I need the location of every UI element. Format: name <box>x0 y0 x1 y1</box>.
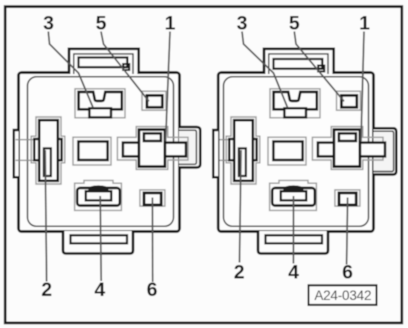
svg-text:1: 1 <box>359 13 370 35</box>
terminal 2 tall slot (right) <box>234 120 253 181</box>
svg-text:4: 4 <box>94 279 105 301</box>
svg-text:4: 4 <box>288 262 299 284</box>
terminal 1 vertical slot (right) <box>334 130 360 167</box>
terminal 5 slot (left) <box>147 95 162 107</box>
center slot gray outline (right) <box>268 137 306 165</box>
svg-text:1: 1 <box>165 13 176 35</box>
terminal 3 slot gray outline (left) <box>75 89 125 118</box>
terminal 1 bar slot (right) <box>318 143 385 157</box>
terminal 2 inner slot (left) <box>44 148 51 176</box>
right tab inner outline <box>179 130 196 164</box>
terminal 4 slot (right) <box>272 188 315 206</box>
part number box <box>309 285 377 305</box>
terminal 2 cross slot (right) <box>229 139 256 160</box>
top tab inner outline <box>74 54 133 74</box>
top tab slot step (right) <box>318 66 324 72</box>
svg-text:6: 6 <box>342 262 353 284</box>
terminal 5 slot gray outline (right) <box>337 91 361 110</box>
terminal 1 key slot (left) <box>144 133 161 141</box>
inner body outline (right) <box>224 77 369 227</box>
terminal 1 gray outline (right) <box>312 127 383 170</box>
terminal 3 slot (left) <box>79 92 122 109</box>
terminal 1 key slot (right) <box>339 133 356 141</box>
inner body outline (left) <box>28 77 174 227</box>
terminal 1 gray outline (left) <box>117 127 188 170</box>
center slot gray outline (left) <box>73 137 111 165</box>
svg-text:A24-0342: A24-0342 <box>314 288 371 303</box>
callout line 2 (right) <box>240 150 242 263</box>
terminal 4 key dome (left) <box>87 185 109 191</box>
terminal 6 slot (left) <box>144 193 161 205</box>
terminal 1 vertical slot (left) <box>139 130 165 167</box>
terminal 4 gray outline (left) <box>75 180 122 210</box>
callout line 3 (right) <box>242 32 288 108</box>
svg-text:5: 5 <box>96 13 107 35</box>
terminal 6 slot gray outline (left) <box>140 190 165 206</box>
connector body (right) <box>218 73 373 232</box>
terminal 3 slot (right) <box>274 92 317 109</box>
svg-text:2: 2 <box>234 262 245 284</box>
terminal 4 slot (left) <box>77 188 120 206</box>
top tab slot step <box>123 64 129 70</box>
svg-text:5: 5 <box>289 13 300 35</box>
terminal 2 gray outline (left) <box>31 117 65 184</box>
terminal 6 slot gray outline (right) <box>335 190 360 206</box>
svg-text:3: 3 <box>43 13 54 35</box>
svg-text:3: 3 <box>237 13 248 35</box>
terminal 4 inner slot (right) <box>281 191 306 200</box>
right tab (right connector) <box>374 128 397 174</box>
svg-text:2: 2 <box>41 279 52 301</box>
bottom tab (left connector) <box>63 231 133 254</box>
terminal 3 lower slot (right) <box>284 108 306 117</box>
terminal 2 cross slot (left) <box>34 139 61 160</box>
callout line 5 (left) <box>101 32 149 102</box>
right tab inner outline (right) <box>374 131 394 171</box>
callout line 3 (left) <box>48 32 93 108</box>
right tab (left connector) <box>179 127 200 168</box>
top tab slot <box>79 58 128 68</box>
terminal 2 gray stubs to left tab <box>16 140 35 161</box>
callout line 4 (right) <box>292 196 294 264</box>
terminal 1 bar slot (left) <box>123 143 186 157</box>
callout line 2 (left) <box>45 150 46 282</box>
terminal 2 gray stubs to left tab (right) <box>220 140 230 161</box>
bottom tab (right connector) <box>258 231 328 254</box>
left tab (right connector) <box>213 130 218 177</box>
callout line 5 (right) <box>294 32 344 102</box>
terminal 4 inner slot (left) <box>86 191 111 200</box>
callout line 1 (left) <box>166 32 170 142</box>
terminal 5 slot (right) <box>341 95 356 107</box>
top tab slot (right) <box>274 59 323 69</box>
svg-text:6: 6 <box>147 279 158 301</box>
terminal 2 gray outline (right) <box>226 117 260 184</box>
terminal 4 key dome (right) <box>282 185 304 191</box>
top tab inner outline (right) <box>269 54 328 74</box>
terminal 3 lower slot <box>89 108 111 117</box>
callout line 4 (left) <box>100 196 101 281</box>
terminal 6 slot (right) <box>339 193 356 205</box>
callout line 6 (right) <box>347 198 348 265</box>
center slot (left) <box>78 142 107 161</box>
callout line 6 (left) <box>151 198 153 283</box>
terminal 2 inner slot (right) <box>239 148 246 176</box>
top tab (left connector) <box>69 49 139 74</box>
terminal 5 slot gray outline (left) <box>142 91 166 110</box>
connector body (left) <box>19 73 180 232</box>
bottom tab slot <box>71 235 128 243</box>
terminal 3 slot gray outline (right) <box>270 89 320 118</box>
top tab (right connector) <box>264 49 334 74</box>
left tab (left connector) <box>14 130 19 177</box>
terminal 4 gray outline (right) <box>270 180 317 210</box>
bottom tab slot (right) <box>266 235 323 243</box>
terminal 2 tall slot (left) <box>39 120 58 181</box>
center slot (right) <box>273 142 302 161</box>
callout line 1 (right) <box>361 32 364 142</box>
